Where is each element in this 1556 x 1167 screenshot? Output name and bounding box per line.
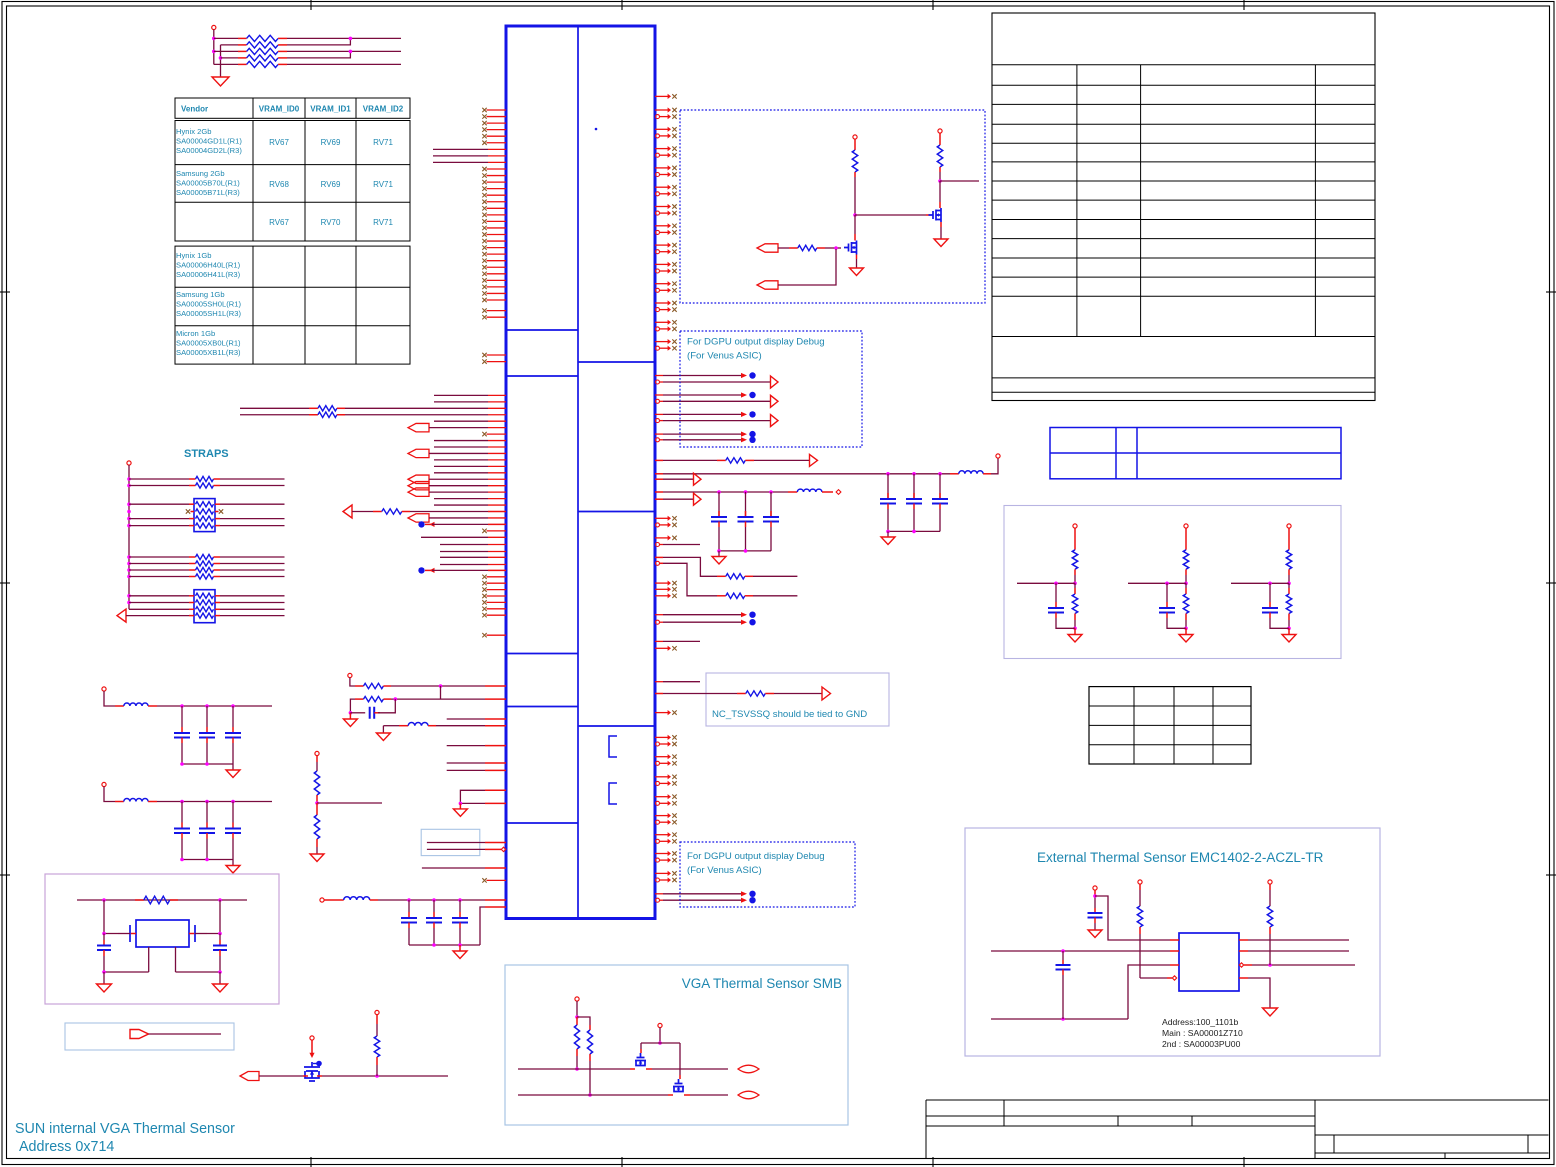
wire bus row 473 long (655, 473, 663, 475)
svg-text:Hynix 1Gb: Hynix 1Gb (176, 251, 211, 260)
svg-text:SA00005SH1L(R3): SA00005SH1L(R3) (176, 309, 241, 318)
straps bus junction dots (127, 477, 131, 481)
junction dots row 900 (407, 898, 411, 902)
wire xtal bottom left (104, 971, 149, 973)
svg-text:Samsung 2Gb: Samsung 2Gb (176, 169, 225, 178)
inductor L row473 (950, 473, 959, 475)
node N4 (315, 801, 319, 805)
transistor Q3 (304, 1062, 320, 1081)
sensor right row4 to ground (1239, 977, 1248, 979)
wire gate Q5 (679, 1043, 681, 1075)
svg-text:SA00006H41L(R3): SA00006H41L(R3) (176, 270, 241, 279)
LC filter 2 ground (232, 860, 234, 866)
pin P12 (1093, 886, 1097, 890)
svg-text:VRAM_ID1: VRAM_ID1 (310, 105, 351, 114)
net flag box (65, 1023, 234, 1050)
svg-text:NC_TSVSSQ should be tied to GN: NC_TSVSSQ should be tied to GND (712, 709, 867, 720)
U1 left wires group top (433, 148, 488, 150)
resistor R pullup1 (854, 139, 856, 150)
pin P7 (315, 751, 319, 755)
wire Z row 557 with resistor (655, 556, 663, 558)
wire row 763 stub (447, 762, 485, 764)
U1 right wire 544 (656, 543, 660, 547)
U1 left pins NC pair B (487, 354, 507, 356)
wire Q2 source to ground (940, 222, 942, 227)
SMB bus 2 net oval (738, 1091, 759, 1099)
power pin P4 (996, 454, 1000, 458)
wire R ext1 down to row4 (1139, 934, 1141, 978)
node N1 dot (853, 213, 857, 217)
svg-text:For DGPU output display Debug: For DGPU output display Debug (687, 337, 825, 348)
SMB bus 2 (518, 1094, 668, 1096)
svg-text:RV67: RV67 (269, 138, 289, 147)
wire to node N1 (854, 177, 856, 215)
U1 left pins group NC main (487, 168, 507, 170)
svg-text:(For Venus ASIC): (For Venus ASIC) (687, 865, 762, 876)
resistor RV68 (221, 44, 239, 46)
VGA thermal sensor box (505, 965, 848, 1125)
capacitor C mid (350, 712, 365, 714)
arrow row 479 (655, 478, 663, 480)
pin P9 (375, 1010, 379, 1014)
ground G14 (1263, 1008, 1278, 1016)
wire rail row473 caps (888, 530, 940, 532)
capacitor C ext2 (1062, 951, 1064, 960)
resistor NC row (655, 693, 663, 695)
junction dots on bus A (212, 37, 216, 41)
wire N3 down to Q2 drain (939, 181, 941, 202)
RC divider at x=1186 (1184, 524, 1188, 528)
U1 left resistor rows RN straps (240, 407, 309, 409)
sensor right row3 (1239, 963, 1243, 967)
title block (926, 1099, 1549, 1101)
wire row 842 (427, 842, 485, 844)
net flag F1 (757, 244, 778, 252)
svg-text:Address 0x714: Address 0x714 (19, 1139, 114, 1155)
resistor in box B (129, 595, 189, 597)
SMB bus 1 net oval (738, 1065, 759, 1073)
resistor R pullup2 (939, 133, 941, 145)
table VRAM vendor header (175, 98, 410, 118)
resistor R div top (316, 756, 318, 762)
wire up to pin row473 (991, 458, 998, 474)
svg-text:SA00005XB0L(R1): SA00005XB0L(R1) (176, 339, 241, 348)
resistor R gate (798, 245, 817, 250)
GPU U1 left column section lines (506, 330, 578, 823)
capacitor C bank row473 (887, 474, 889, 499)
wire R mid2 right to chip riser (391, 698, 441, 700)
U1 left pins x short (487, 433, 507, 435)
resistor R bottom (376, 1015, 378, 1024)
svg-text:SA00006H40L(R1): SA00006H40L(R1) (176, 261, 241, 270)
wire net row 5 (287, 63, 401, 65)
svg-text:(For Venus ASIC): (For Venus ASIC) (687, 351, 762, 362)
pin P11 (658, 1023, 662, 1027)
wire bottom rail ext (991, 1018, 1128, 1020)
LC filter 1 bottom rail (182, 763, 233, 765)
capacitor C xtal right (219, 934, 221, 941)
svg-text:External Thermal Sensor EMC140: External Thermal Sensor EMC1402-2-ACZL-T… (1037, 850, 1324, 865)
svg-text:Address:100_1101b: Address:100_1101b (1162, 1017, 1239, 1027)
wire F1 to R (778, 247, 789, 249)
wire F2 up to N2 (778, 249, 836, 285)
ground G9 (310, 854, 324, 862)
crystal circuit box (45, 874, 279, 1004)
resistor RV71 (214, 63, 238, 65)
ground G3 (934, 239, 948, 247)
RC divider at x=1075 (1073, 524, 1077, 528)
resistor in box B (129, 608, 189, 610)
junction dot mid1 (439, 684, 443, 688)
U1 right arrowdot pair C (655, 614, 663, 616)
U1 right wire 681 (655, 681, 663, 683)
pin P13 (1138, 880, 1142, 884)
LC filter 1 ground (232, 764, 234, 770)
U1 left pins NC pair A (487, 310, 507, 312)
net flag F2 (757, 281, 778, 289)
U1 left pins group NC top (487, 109, 507, 111)
resistor R vga1 (576, 1017, 578, 1025)
ground G5 (718, 551, 720, 557)
capacitor C ext1 (1094, 890, 1096, 896)
capacitor C xtal left (103, 934, 105, 941)
sensor U2 body (1179, 933, 1239, 991)
pin P10 (575, 997, 579, 1001)
sensor right row1 (1239, 939, 1248, 941)
wire branch right (577, 1017, 590, 1025)
wire row 907 corner (485, 906, 506, 908)
svg-text:SA00005B71L(R3): SA00005B71L(R3) (176, 188, 240, 197)
crystal Y1 body (136, 920, 189, 947)
resistor in box B (196, 613, 214, 618)
svg-text:2nd : SA00003PU00: 2nd : SA00003PU00 (1162, 1039, 1241, 1049)
U1 right pin pairs top section (655, 109, 668, 111)
U1 right debug pairs (655, 375, 663, 377)
pin P8 (310, 1036, 314, 1040)
wire Z row 563 with resistor (656, 561, 660, 565)
resistor in box B (129, 602, 189, 604)
U1 left node dot row B (418, 567, 424, 573)
external thermal sensor box (965, 828, 1380, 1056)
resistor RV69 (214, 50, 238, 52)
crystal electrode right (194, 925, 196, 942)
U1 left net flags (408, 423, 429, 431)
LC filter 2 capacitor bank (181, 802, 183, 823)
net flag F4 (240, 1072, 259, 1081)
wire net row 4 corner (287, 51, 350, 58)
resistor R xtal (135, 899, 144, 901)
wire row 770 stub (447, 769, 485, 771)
wire rail row 900 (409, 944, 480, 946)
node speck (595, 128, 598, 131)
resistor in box A (129, 503, 189, 505)
transistor Q2 (929, 208, 942, 222)
junction dot on bus B (219, 56, 223, 60)
LC filter 2 bus (157, 801, 272, 803)
wire bus row 492 (655, 491, 663, 493)
inductor L mid row 725 (382, 726, 384, 733)
svg-text:Main : SA00001Z710: Main : SA00001Z710 (1162, 1028, 1243, 1038)
ground G1 (212, 77, 229, 86)
wire xtal right branch (207, 900, 220, 934)
U1 right wire 641 (655, 640, 663, 642)
svg-text:SA00004GD2L(R3): SA00004GD2L(R3) (176, 146, 242, 155)
GPU U1 body (506, 26, 655, 919)
LC filter 1 capacitor bank (181, 706, 183, 727)
bottom left inductor row 900 (320, 898, 324, 902)
svg-text:Micron 1Gb: Micron 1Gb (176, 329, 215, 338)
svg-text:VRAM_ID2: VRAM_ID2 (363, 105, 404, 114)
ground G6 (343, 719, 357, 727)
wire row 745 stub (447, 745, 485, 747)
resistor R ext1 (1139, 884, 1141, 890)
LC filter 1 pin (102, 687, 106, 691)
power pin P1 (212, 25, 216, 29)
svg-text:Samsung 1Gb: Samsung 1Gb (176, 290, 225, 299)
table VRAM block 1Gb (175, 246, 410, 364)
inductor L row492 (788, 491, 797, 493)
resistor R vga2 (589, 1025, 591, 1030)
table revision history (992, 13, 1375, 401)
wire row3 riser (1128, 965, 1170, 1019)
ground G13 (1088, 930, 1102, 938)
crystal electrode left (129, 925, 131, 942)
U1 right pin single top (655, 95, 668, 97)
transistor Q1 (844, 241, 857, 255)
arrow row 460 (810, 454, 818, 466)
table VRAM block 2Gb (175, 121, 410, 242)
LC filter 1 bus (157, 705, 272, 707)
ground G7 (376, 733, 390, 741)
ground G10 (459, 945, 461, 951)
wire row2 long (991, 950, 1170, 952)
wire net row 1 (287, 37, 401, 39)
svg-text:SA00004GD1L(R1): SA00004GD1L(R1) (176, 137, 242, 146)
junction dot bus bottom (375, 1074, 379, 1078)
wire P10 down (576, 1001, 578, 1017)
wire P8 down arrow (311, 1040, 313, 1054)
svg-text:SUN internal VGA Thermal Senso: SUN internal VGA Thermal Sensor (15, 1121, 235, 1137)
power pin P3 (938, 129, 942, 133)
resistor R mid1 (350, 678, 355, 686)
debug box 1 border (680, 331, 862, 447)
wire vertical bus A (213, 30, 215, 65)
LC filter 1 inductor (104, 691, 115, 706)
U1 right pin x 712 (655, 712, 668, 714)
resistor network box B (194, 590, 215, 623)
debug box 2 border (680, 842, 855, 907)
ground G12 (219, 972, 221, 984)
U1 left pins x group C (487, 576, 507, 578)
U1 left wires straps section (434, 394, 488, 396)
wire R mid2 left corner to ground (350, 699, 355, 713)
crystal top bus (77, 899, 247, 901)
svg-text:Vendor: Vendor (181, 105, 208, 114)
wire gate Q4 (640, 1043, 642, 1049)
svg-text:Hynix 2Gb: Hynix 2Gb (176, 127, 211, 136)
transistor Q4 (635, 1053, 646, 1066)
resistor network box A (194, 499, 215, 532)
junction dots row 492 (717, 490, 721, 494)
LC filter 2 pin (102, 782, 106, 786)
wire Q1 source to ground (856, 255, 858, 260)
resistor group 2 (129, 556, 189, 558)
resistor pair group 1 (129, 478, 189, 480)
resistor row to arrow 460 (655, 459, 663, 461)
resistor R ext2 (1269, 884, 1271, 890)
wire bus bottom (259, 1075, 303, 1077)
NC_TSVSSQ note box (706, 673, 889, 726)
svg-text:SA00005SH0L(R1): SA00005SH0L(R1) (176, 300, 241, 309)
wire rows 790-803 to ground (485, 789, 506, 791)
GPU U1 right column section lines (578, 362, 655, 726)
wire net row 2 corner (287, 38, 350, 45)
svg-text:RV67: RV67 (269, 218, 289, 227)
wire row 868 (422, 867, 485, 869)
straps vertical bus (128, 465, 130, 609)
wire to node N3 (939, 172, 941, 181)
power pin P2 (853, 135, 857, 139)
wire R mid2 to chip (441, 698, 486, 700)
transistor Q5 (673, 1079, 684, 1092)
junction dots right (349, 37, 353, 41)
U1 right pins x group C2 (655, 582, 668, 584)
diamond pin row4 (1172, 976, 1176, 980)
bracket pin group marker 2 (609, 783, 617, 804)
LC filter 2 inductor (104, 787, 115, 802)
svg-text:RV71: RV71 (373, 180, 393, 189)
svg-text:STRAPS: STRAPS (184, 448, 229, 460)
node N3 dot (938, 179, 942, 183)
U1 left node dot row A (418, 521, 424, 527)
wire P12 corner to row1 (1095, 896, 1170, 940)
arrow strap bottom (117, 609, 126, 622)
wire rail row492 caps (719, 550, 771, 552)
pin diamond row492 (836, 490, 841, 495)
U1 right debug2 pair (655, 893, 663, 895)
table blue notes (1050, 428, 1341, 479)
net flag F3 (130, 1030, 149, 1039)
wire R mid1 to chip (391, 685, 485, 687)
resistor in box A (129, 525, 189, 527)
wire xtal left branch (104, 900, 118, 934)
svg-text:RV68: RV68 (269, 180, 289, 189)
U1 left wires group C (440, 544, 488, 546)
U1 right pin pairs bottom section (655, 736, 668, 738)
wire row 849 diamond (427, 848, 485, 850)
RC divider group box (1004, 506, 1341, 659)
svg-text:SA00005XB1L(R3): SA00005XB1L(R3) (176, 348, 241, 357)
LC filter 2 bottom rail (182, 859, 233, 861)
svg-text:VGA Thermal Sensor SMB: VGA Thermal Sensor SMB (682, 976, 842, 991)
wire F3 (149, 1033, 222, 1035)
wire net row 3 (287, 50, 401, 52)
junction dots row 473 (886, 472, 890, 476)
table 4x4 (1089, 687, 1251, 764)
wire N1 down to Q1 drain (854, 215, 856, 234)
svg-text:RV70: RV70 (321, 218, 341, 227)
svg-text:RV69: RV69 (321, 138, 341, 147)
arrow row 499 (655, 498, 663, 500)
wire N1 to Q2 gate (855, 214, 926, 216)
resistor in box A (129, 518, 189, 520)
svg-text:VRAM_ID0: VRAM_ID0 (259, 105, 300, 114)
svg-text:RV71: RV71 (373, 218, 393, 227)
resistor RV70 (221, 57, 239, 59)
resistor R mid2 (355, 698, 364, 700)
svg-text:SA00005B70L(R1): SA00005B70L(R1) (176, 179, 240, 188)
wire vertical bus B to ground (220, 45, 222, 77)
blue group box (421, 829, 480, 855)
arrow NC out (822, 687, 831, 700)
pin P14 (1268, 880, 1272, 884)
GPU U1 column divider (577, 26, 579, 919)
capacitor bank row 900 (408, 900, 410, 912)
svg-text:RV71: RV71 (373, 138, 393, 147)
wire N4 right (317, 802, 382, 804)
U1 right pins x group C (655, 517, 668, 519)
pin x row 880 (487, 879, 507, 881)
sensor right row2 (1239, 950, 1248, 952)
dashed circuit box border (680, 110, 985, 303)
capacitor C bank row492 (718, 492, 720, 517)
RC divider at x=1289 (1287, 524, 1291, 528)
wire xtal bottom right (176, 971, 221, 973)
ground G4 (887, 531, 889, 537)
ground G8 (453, 809, 467, 817)
ground G11 (103, 972, 105, 984)
node N2 dot (834, 246, 838, 250)
resistor R div bottom (316, 803, 318, 815)
wire P11 gate bar (659, 1028, 661, 1043)
resistor RV67 (214, 37, 238, 39)
wire N3 out right (940, 180, 979, 182)
U1 left resistor row R into chip (343, 505, 352, 518)
svg-text:For DGPU output display Debug: For DGPU output display Debug (687, 851, 825, 862)
svg-text:RV69: RV69 (321, 180, 341, 189)
ground G2 (850, 268, 864, 276)
bracket pin group marker 1 (609, 736, 617, 757)
SMB bus 1 (518, 1068, 630, 1070)
U1 right pin x 648 (655, 647, 668, 649)
wire row 719 stub (447, 718, 485, 720)
pin P6 (348, 673, 352, 677)
resistor in box A (186, 509, 190, 513)
straps pin P5 (127, 461, 131, 465)
